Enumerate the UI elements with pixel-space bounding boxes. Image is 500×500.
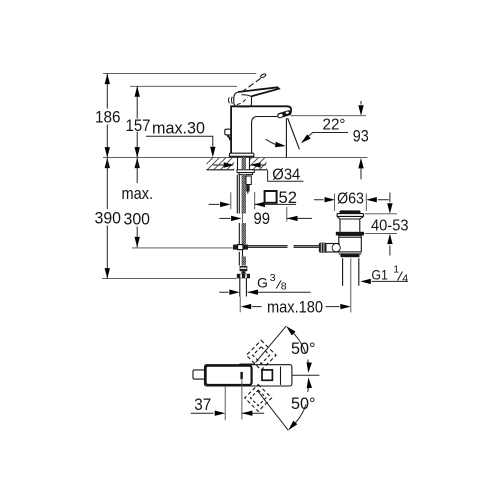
raised lever position (dash-dot) xyxy=(244,73,267,91)
faucet base plate xyxy=(229,153,253,157)
dimension Ø63 xyxy=(314,191,389,211)
50 degree line up xyxy=(256,326,287,362)
svg-text:3: 3 xyxy=(270,272,276,284)
extension line bottom of max.300 xyxy=(132,247,233,249)
lever handle xyxy=(228,87,278,107)
label G1 1/4 xyxy=(360,264,408,285)
arc for 50 down xyxy=(286,377,315,432)
stream swing arc arrow xyxy=(266,139,287,148)
label G3/8 xyxy=(219,272,310,295)
svg-text:22°: 22° xyxy=(323,116,346,133)
horizontal reference line plan xyxy=(292,374,320,376)
svg-text:Ø63: Ø63 xyxy=(337,191,364,208)
hose break centerline xyxy=(242,214,244,224)
extension line bottom of 390 xyxy=(102,278,237,280)
svg-text:max.180: max.180 xyxy=(267,297,323,316)
svg-text:93: 93 xyxy=(353,127,369,146)
flexible hose lower segment xyxy=(239,223,246,245)
handle position 50 down (dashed) xyxy=(245,384,272,411)
pop-up waste top plug xyxy=(337,210,364,216)
G3/8 nut xyxy=(237,274,250,279)
threaded shank in hole xyxy=(238,158,250,170)
dimension 157 xyxy=(126,86,151,168)
svg-text:max.30: max.30 xyxy=(152,119,205,138)
waste lock nut xyxy=(339,254,362,257)
G3/8 tail pipe xyxy=(240,278,247,296)
pop-up rod housing xyxy=(246,176,251,194)
pop-up linkage rod xyxy=(248,246,319,248)
svg-text:1: 1 xyxy=(393,264,399,276)
svg-text:50°: 50° xyxy=(291,339,316,358)
dimension 99 spout reach xyxy=(219,207,312,228)
svg-text:4: 4 xyxy=(402,272,408,284)
waste seal ring xyxy=(336,232,364,236)
svg-text:8: 8 xyxy=(281,281,287,293)
waste side port xyxy=(324,244,340,253)
svg-text:157: 157 xyxy=(126,116,151,135)
label max.30 with leader to countertop xyxy=(146,119,216,158)
supply connection collar xyxy=(240,266,248,274)
dimension Ø34 mounting hole xyxy=(213,162,303,183)
dimension square 52 base xyxy=(209,188,297,209)
svg-text:G: G xyxy=(257,274,268,290)
svg-text:37: 37 xyxy=(194,395,211,414)
mounting washer and nut below deck xyxy=(237,170,254,175)
svg-text:max.: max. xyxy=(122,184,154,203)
countertop section xyxy=(103,158,368,170)
hose coupling at rod xyxy=(233,245,248,250)
arc for 50 up xyxy=(284,324,315,373)
50 degree line down xyxy=(258,391,289,431)
water stream 22 degrees xyxy=(288,118,300,149)
flexible hose upper segment xyxy=(237,175,246,214)
svg-text:40-53: 40-53 xyxy=(371,217,409,234)
dimension 40-53 xyxy=(365,193,409,256)
svg-text:300: 300 xyxy=(124,210,151,229)
svg-text:52: 52 xyxy=(279,188,298,207)
extension line lever rest height xyxy=(130,85,237,87)
hose below coupling xyxy=(239,250,246,266)
svg-text:Ø34: Ø34 xyxy=(272,167,300,184)
label 22 degrees xyxy=(291,116,367,146)
svg-text:186: 186 xyxy=(95,108,121,127)
dimension 93 xyxy=(353,101,369,179)
aerator xyxy=(277,110,292,119)
svg-text:G1: G1 xyxy=(371,266,388,282)
extension line top (lever max height) xyxy=(103,73,256,75)
dimension 390 xyxy=(95,158,122,279)
pop-up rod knob at rear xyxy=(225,129,231,140)
svg-text:50°: 50° xyxy=(291,394,316,413)
dimension 186 xyxy=(95,74,121,169)
waste mid body xyxy=(339,235,362,252)
dimension max.180 xyxy=(240,297,351,317)
handle position 50 up (dashed) xyxy=(246,340,276,370)
waste tail pipe G1 1/4 xyxy=(343,258,359,312)
faucet body outline xyxy=(231,106,291,153)
dimension max.300 xyxy=(122,158,154,248)
water stream vertical xyxy=(285,118,287,157)
pop-up waste upper body xyxy=(337,216,364,231)
rod adjusting knob xyxy=(319,243,327,253)
plan view outline xyxy=(193,364,292,386)
svg-text:390: 390 xyxy=(95,209,122,228)
svg-text:99: 99 xyxy=(254,209,271,228)
dimension 37 xyxy=(191,380,264,420)
